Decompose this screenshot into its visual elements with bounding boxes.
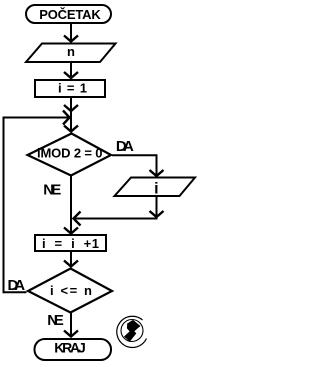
svg-text:i = i +1: i = i +1 bbox=[42, 236, 99, 251]
terminator POCETAK bbox=[26, 5, 111, 23]
svg-text:i <= n: i <= n bbox=[50, 283, 92, 298]
svg-text:n: n bbox=[67, 44, 75, 59]
wire io i down and left to junction bbox=[74, 197, 164, 226]
process i = 1 bbox=[35, 80, 105, 97]
svg-text:NE: NE bbox=[43, 182, 61, 199]
wire n to i=1 bbox=[64, 63, 78, 78]
svg-text:POČETAK: POČETAK bbox=[39, 7, 101, 22]
wire POCETAK to n bbox=[64, 24, 78, 42]
wire decision2 NE to KRAJ bbox=[64, 313, 78, 337]
svg-text:i: i bbox=[154, 181, 158, 198]
wire i=1 to decision 1 bbox=[64, 97, 78, 132]
io parallelogram i bbox=[115, 178, 196, 198]
process i = i +1 bbox=[35, 235, 106, 251]
svg-text:DA: DA bbox=[8, 277, 26, 294]
svg-text:iMOD 2 = 0: iMOD 2 = 0 bbox=[37, 146, 103, 161]
svg-text:KRAJ: KRAJ bbox=[54, 340, 86, 356]
wire loop-return from decision 2 DA bbox=[4, 111, 70, 294]
svg-text:i = 1: i = 1 bbox=[58, 81, 87, 96]
io parallelogram n bbox=[26, 44, 116, 63]
wire DA branch to io i bbox=[112, 155, 164, 176]
terminator KRAJ bbox=[35, 339, 112, 360]
svg-text:NE: NE bbox=[47, 312, 64, 329]
decision i <= n bbox=[28, 269, 112, 313]
wire i=i+1 to decision 2 bbox=[64, 251, 78, 267]
wire decision1 NE down to i=i+1 bbox=[64, 176, 78, 234]
logo watermark bbox=[117, 316, 147, 347]
svg-text:DA: DA bbox=[116, 138, 134, 155]
decision iMOD 2 = 0 bbox=[28, 134, 112, 176]
